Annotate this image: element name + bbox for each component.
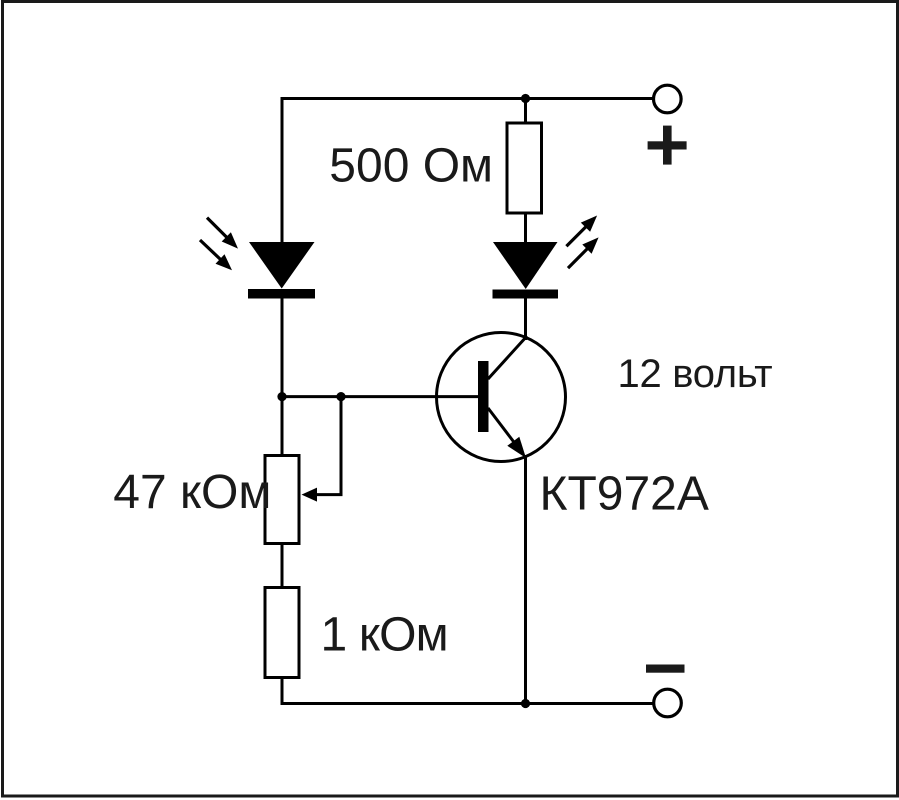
node junction bottom (emitter rail): [521, 699, 530, 708]
terminal minus circle: [654, 689, 682, 717]
terminal plus circle: [654, 85, 682, 113]
node base junction: [277, 392, 286, 401]
wire 500-ohm resistor top lead: [524, 99, 527, 125]
node junction top (collector rail): [521, 94, 530, 103]
plus sign: [648, 126, 687, 165]
transistor Q1 circle: [437, 333, 566, 462]
LED HL1 triangle: [493, 242, 558, 289]
wire top horizontal + left vertical to photodiode: [282, 99, 653, 244]
wire LED cathode to transistor collector: [524, 299, 527, 341]
LED cathode bar: [493, 290, 559, 299]
resistor 1 кОм body: [265, 588, 299, 678]
svg-text:КТ972А: КТ972А: [540, 467, 709, 520]
svg-text:12 вольт: 12 вольт: [618, 352, 773, 396]
minus sign: [646, 665, 685, 673]
svg-text:500 Ом: 500 Ом: [329, 139, 493, 192]
node wiper branch junction: [336, 392, 345, 401]
photodiode VD1 triangle: [249, 242, 315, 289]
wire base horizontal: [282, 395, 479, 398]
wire 1k bottom lead + bottom horizontal: [282, 678, 653, 704]
transistor base bar: [478, 361, 489, 432]
wire wiper branch vertical+horizontal with arrow into pot: [302, 397, 342, 502]
svg-text:1 кОм: 1 кОм: [321, 608, 448, 661]
photodiode cathode bar: [248, 289, 315, 299]
wire pot to 1k resistor: [281, 544, 284, 589]
LED emitted light arrow 1: [566, 216, 597, 247]
transistor collector line: [488, 336, 527, 379]
svg-text:47 кОм: 47 кОм: [113, 466, 271, 519]
wire 500-ohm bottom lead to LED: [524, 213, 527, 243]
resistor 500 Ом body: [507, 123, 542, 213]
wire left vertical photodiode to potentiometer: [281, 299, 284, 457]
LED emitted light arrow 2: [568, 237, 599, 268]
transistor emitter line with arrow: [488, 408, 526, 458]
photodiode incident light arrow 2: [200, 240, 232, 270]
potentiometer 47 кОм body: [265, 456, 299, 544]
photodiode incident light arrow 1: [207, 218, 238, 249]
wire emitter vertical to bottom rail: [524, 455, 527, 704]
